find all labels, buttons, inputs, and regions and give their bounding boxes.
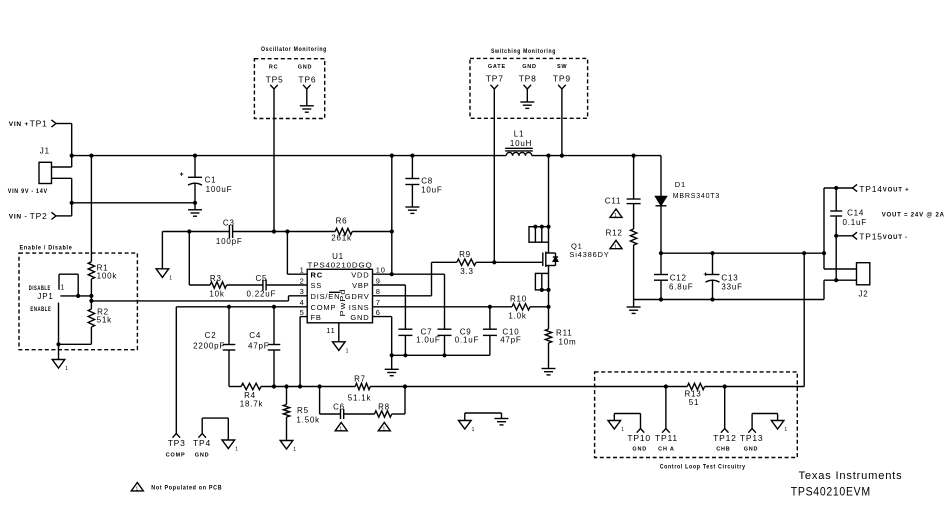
svg-text:1.0k: 1.0k bbox=[508, 312, 527, 321]
junction C4 / COMP row bbox=[272, 305, 276, 309]
junction VOUT / feedback drop bbox=[802, 251, 806, 255]
resistor R8 (not populated) bbox=[375, 403, 392, 418]
svg-text:261k: 261k bbox=[331, 234, 352, 243]
wire R12 to output gnd rail bbox=[633, 245, 635, 300]
svg-text:JP1: JP1 bbox=[37, 292, 53, 301]
svg-text:R10: R10 bbox=[510, 294, 527, 303]
capacitor C5 0.22uF bbox=[247, 274, 277, 299]
wire C6/R8 branch bbox=[320, 387, 405, 415]
svg-text:R8: R8 bbox=[378, 403, 390, 412]
svg-text:MBRS340T3: MBRS340T3 bbox=[673, 193, 720, 200]
svg-text:8: 8 bbox=[376, 287, 381, 296]
test point TP5 (RC) bbox=[266, 65, 284, 90]
junction top rail / TP1 bbox=[70, 154, 74, 158]
svg-text:1: 1 bbox=[235, 447, 239, 453]
diode D1 MBRS340T3 bbox=[656, 156, 721, 254]
svg-text:Not Populated on PCB: Not Populated on PCB bbox=[151, 485, 222, 492]
ground GND1 for TP4 bbox=[222, 440, 235, 449]
ground earth below TP8 bbox=[520, 101, 534, 103]
svg-text:R11: R11 bbox=[556, 329, 572, 338]
node FB row wire bbox=[229, 386, 804, 388]
ground tie bracket GND1 to earth bbox=[465, 413, 502, 421]
svg-text:10uF: 10uF bbox=[421, 186, 442, 195]
NP triangle under C6 bbox=[335, 422, 347, 430]
junction DIS/EN tap bbox=[89, 299, 93, 303]
svg-text:GND: GND bbox=[298, 65, 313, 71]
ground earth below R11 bbox=[542, 368, 556, 370]
svg-text:3: 3 bbox=[300, 287, 305, 296]
svg-text:R7: R7 bbox=[354, 375, 366, 384]
wire J2 pin1 bbox=[824, 268, 857, 270]
svg-text:TPS40210EVM: TPS40210EVM bbox=[791, 485, 871, 499]
svg-text:CH A: CH A bbox=[658, 447, 674, 453]
svg-text:GND: GND bbox=[195, 453, 210, 459]
wire J1 pin2 to VIN- rail bbox=[52, 178, 72, 216]
capacitor C13 33uF bbox=[703, 253, 742, 299]
svg-text:ENABLE: ENABLE bbox=[30, 307, 51, 313]
svg-text:R12: R12 bbox=[606, 229, 623, 238]
junction RC row / pin1 branch bbox=[285, 229, 289, 233]
junction R13 row / TP12 bbox=[723, 384, 727, 388]
svg-text:C12: C12 bbox=[670, 274, 687, 283]
svg-text:VOUT = 24V @ 2A: VOUT = 24V @ 2A bbox=[882, 213, 945, 219]
junction VDD / R6 vertical bbox=[390, 272, 394, 276]
junction VOUT / D1 bbox=[659, 251, 663, 255]
svg-text:6: 6 bbox=[376, 308, 381, 317]
pin 11 PwPd ground GND1 bbox=[333, 323, 350, 355]
inductor L1 10uH bbox=[505, 130, 533, 156]
resistor R10 1.0k bbox=[508, 294, 530, 320]
svg-text:Switching Monitoring: Switching Monitoring bbox=[491, 49, 556, 55]
svg-text:TP9: TP9 bbox=[553, 74, 571, 84]
svg-text:+: + bbox=[180, 172, 185, 179]
svg-text:GATE: GATE bbox=[488, 64, 506, 70]
wire R6 right to top rail and VDD bbox=[391, 156, 393, 275]
wire C5 to pin 2 SS bbox=[266, 284, 307, 286]
wire C11 to R12 bbox=[633, 204, 635, 229]
wire COMP row bbox=[176, 306, 307, 308]
junction ISNS / C10 bbox=[488, 305, 492, 309]
svg-text:1: 1 bbox=[621, 427, 625, 433]
junction TP15 / C14 bbox=[834, 234, 838, 238]
ground earth tie right bbox=[495, 418, 509, 420]
svg-text:0.22uF: 0.22uF bbox=[247, 290, 277, 299]
svg-text:5: 5 bbox=[300, 308, 305, 317]
resistor R1 100k bbox=[88, 262, 117, 281]
Control Loop Test Circuitry dashed box bbox=[595, 372, 798, 471]
svg-text:1: 1 bbox=[614, 244, 618, 250]
wire GND pin6 to ground rail bbox=[373, 317, 392, 356]
junction drain pins b bbox=[540, 225, 544, 229]
ground earth below gnd rail bbox=[385, 355, 399, 375]
svg-text:RC: RC bbox=[311, 270, 323, 279]
wire R9 to Q1 gate bbox=[476, 261, 543, 263]
wire TP9 to SW rail bbox=[561, 89, 563, 156]
ground earth below TP6 bbox=[300, 105, 314, 107]
svg-text:VOUT +: VOUT + bbox=[883, 188, 910, 194]
test point TP1 (VIN +) bbox=[9, 119, 56, 129]
svg-text:RC: RC bbox=[269, 65, 279, 71]
svg-text:10k: 10k bbox=[209, 290, 224, 299]
svg-text:C1: C1 bbox=[205, 176, 217, 185]
ground earth below out-gnd rail bbox=[627, 300, 641, 314]
svg-text:SW: SW bbox=[557, 64, 567, 70]
svg-text:1: 1 bbox=[383, 426, 387, 432]
wire R2 bottom bbox=[59, 327, 92, 344]
svg-text:1.50k: 1.50k bbox=[296, 416, 320, 425]
svg-text:Enable / Disable: Enable / Disable bbox=[20, 245, 73, 252]
node VIN- rail bbox=[72, 202, 195, 204]
svg-text:TP1: TP1 bbox=[30, 119, 48, 129]
svg-text:47pF: 47pF bbox=[248, 342, 269, 351]
svg-text:TP3: TP3 bbox=[168, 438, 186, 448]
test point TP13 (GND) bbox=[740, 414, 778, 453]
Enable / Disable dashed box bbox=[19, 245, 137, 350]
junction VDD vertical / top rail bbox=[390, 154, 394, 158]
svg-text:4: 4 bbox=[300, 298, 305, 307]
resistor R5 1.50k bbox=[283, 387, 320, 441]
junction Q1 drain / top rail bbox=[546, 154, 550, 158]
svg-text:+: + bbox=[703, 272, 708, 279]
svg-text:TP14: TP14 bbox=[859, 184, 883, 194]
svg-text:1: 1 bbox=[346, 348, 350, 354]
svg-text:GND: GND bbox=[350, 313, 369, 322]
svg-text:2: 2 bbox=[300, 276, 305, 285]
svg-text:2200pF: 2200pF bbox=[193, 342, 225, 351]
svg-text:11: 11 bbox=[326, 326, 335, 335]
capacitor C9 0.1uF bbox=[438, 328, 480, 356]
svg-text:R3: R3 bbox=[210, 274, 222, 283]
svg-text:COMP: COMP bbox=[166, 453, 186, 459]
resistor R9 3.3 bbox=[457, 250, 476, 276]
svg-text:TP10: TP10 bbox=[627, 433, 651, 443]
junction FB row / R5 bbox=[284, 384, 288, 388]
svg-text:1.0uF: 1.0uF bbox=[416, 336, 440, 345]
resistor R13 51 bbox=[684, 383, 704, 407]
svg-text:C6: C6 bbox=[333, 403, 345, 412]
ground GND1 tie left bbox=[459, 421, 472, 430]
svg-text:COMP: COMP bbox=[311, 303, 337, 312]
svg-text:J1: J1 bbox=[40, 147, 50, 156]
svg-text:GDRV: GDRV bbox=[345, 292, 370, 301]
svg-text:TP13: TP13 bbox=[740, 433, 764, 443]
capacitor C11 (not populated) bbox=[605, 197, 641, 206]
junction source pins a bbox=[540, 288, 544, 292]
junction out-gnd / C13 bbox=[710, 297, 714, 301]
junction gnd rail left bbox=[390, 353, 394, 357]
svg-text:GND: GND bbox=[522, 64, 537, 70]
connector J2 bbox=[857, 263, 870, 299]
node VIN top rail bbox=[72, 155, 661, 157]
svg-text:TP5: TP5 bbox=[266, 75, 284, 85]
svg-text:C3: C3 bbox=[223, 219, 235, 228]
svg-text:Si4386DY: Si4386DY bbox=[569, 250, 609, 259]
wire TP7 to gate row bbox=[493, 89, 495, 262]
wire TP1 to top rail bbox=[56, 124, 72, 168]
wire node to DIS/EN pin3 bbox=[91, 296, 307, 301]
junction gate row / TP7 bbox=[492, 260, 496, 264]
svg-text:CHB: CHB bbox=[716, 447, 730, 453]
svg-text:R5: R5 bbox=[297, 406, 309, 415]
junction C2 / COMP row bbox=[227, 305, 231, 309]
junction RC row / TP5 bbox=[272, 229, 276, 233]
junction gnd rail / C7 bbox=[403, 353, 407, 357]
junction C1 / VIN- rail bbox=[193, 201, 197, 205]
svg-text:VIN +: VIN + bbox=[9, 121, 29, 128]
wire Q1 source down bbox=[548, 290, 550, 329]
svg-text:TP12: TP12 bbox=[713, 433, 737, 443]
wire TP2 lead bbox=[56, 215, 72, 217]
test point TP2 (VIN -) bbox=[9, 211, 56, 221]
capacitor C3 100pF bbox=[216, 219, 243, 247]
test point TP15 (VOUT -) bbox=[853, 232, 908, 242]
svg-text:VDD: VDD bbox=[351, 270, 369, 279]
wire VIN rail to R1 bbox=[90, 156, 92, 262]
capacitor C2 2200pF bbox=[193, 307, 235, 387]
Q1 drain pin-group box bbox=[529, 227, 549, 243]
ground GND1 below R5 bbox=[280, 441, 293, 450]
svg-text:10: 10 bbox=[376, 266, 386, 275]
resistor R2 51k bbox=[88, 301, 112, 327]
junction FB row / C4 bbox=[272, 384, 276, 388]
svg-text:TP4: TP4 bbox=[193, 438, 211, 448]
wire R1 to node bbox=[90, 279, 92, 296]
wire feedback drop to R13 row bbox=[803, 253, 805, 386]
capacitor C12 6.8uF bbox=[654, 253, 693, 299]
svg-text:TP8: TP8 bbox=[519, 74, 537, 84]
svg-text:100uF: 100uF bbox=[206, 185, 233, 194]
svg-text:1: 1 bbox=[784, 427, 788, 433]
connector J1 bbox=[8, 147, 52, 196]
junction FB row / FB pin bbox=[298, 384, 302, 388]
ground GND1 below JP1 bbox=[52, 344, 69, 372]
capacitor C1 bbox=[180, 156, 233, 203]
junction R10 / Q1 source bbox=[546, 305, 550, 309]
svg-text:ISNS: ISNS bbox=[349, 303, 370, 312]
svg-text:C4: C4 bbox=[249, 331, 261, 340]
junction VOUT / TP14 branch bbox=[822, 251, 826, 255]
svg-text:VIN 9V - 14V: VIN 9V - 14V bbox=[8, 188, 48, 195]
svg-text:1: 1 bbox=[300, 266, 305, 275]
svg-text:10m: 10m bbox=[559, 338, 577, 347]
resistor R7 51.1k bbox=[348, 375, 372, 403]
wire C3 left node down to R3 bbox=[189, 232, 210, 286]
svg-text:18.7k: 18.7k bbox=[240, 400, 264, 409]
junction J2 pin2 / C14 bbox=[834, 278, 838, 282]
junction drain pins c bbox=[546, 225, 550, 229]
svg-text:1: 1 bbox=[472, 427, 476, 433]
junction TP14 row / C14 bbox=[834, 186, 838, 190]
wire R3 to C5 bbox=[227, 284, 263, 286]
svg-text:Oscillator Monitoring: Oscillator Monitoring bbox=[261, 47, 327, 53]
capacitor C4 47pF bbox=[248, 307, 280, 387]
wire TP15 row bbox=[836, 235, 852, 237]
svg-text:9: 9 bbox=[376, 276, 381, 285]
wire R11 to ground bbox=[548, 343, 550, 369]
svg-text:C2: C2 bbox=[205, 331, 217, 340]
svg-text:C14: C14 bbox=[847, 209, 864, 218]
svg-text:1: 1 bbox=[614, 213, 618, 219]
NP triangle under C11 bbox=[610, 209, 622, 217]
svg-text:D1: D1 bbox=[675, 180, 686, 189]
node VOUT row bbox=[661, 252, 824, 254]
svg-text:1: 1 bbox=[61, 285, 66, 292]
svg-text:0.1uF: 0.1uF bbox=[455, 336, 479, 345]
svg-text:1: 1 bbox=[136, 487, 140, 493]
wire TP8 to ground bbox=[526, 89, 528, 102]
test point TP7 (GATE) bbox=[486, 64, 506, 89]
test point TP3 (COMP) bbox=[166, 307, 186, 459]
NP triangle under R12 bbox=[610, 240, 622, 248]
svg-text:VIN -: VIN - bbox=[9, 214, 28, 221]
svg-text:6.8uF: 6.8uF bbox=[669, 283, 693, 292]
svg-text:FB: FB bbox=[311, 313, 322, 322]
svg-text:C13: C13 bbox=[721, 274, 738, 283]
node analog ground rail bbox=[392, 354, 490, 356]
ground GND1 for TP13 bbox=[771, 421, 784, 430]
svg-text:J2: J2 bbox=[858, 290, 868, 299]
ground GND1 for TP10 bbox=[608, 421, 621, 430]
wire VDD pin10 to C9 bbox=[373, 274, 445, 329]
junction JP1 pin2 / R2 bbox=[56, 342, 60, 346]
junction source pins b bbox=[546, 288, 550, 292]
Oscillator Monitoring dashed box bbox=[254, 47, 327, 119]
test point TP8 (GND) bbox=[519, 64, 537, 89]
junction C11 branch / top rail bbox=[632, 154, 636, 158]
junction FB row / C6 branch bbox=[318, 384, 322, 388]
wire TP5 to RC node bbox=[273, 89, 275, 232]
junction drain pins a bbox=[533, 225, 537, 229]
svg-text:TP6: TP6 bbox=[298, 75, 316, 85]
svg-text:DISABLE: DISABLE bbox=[29, 286, 51, 292]
resistor R12 (not populated) bbox=[606, 229, 637, 246]
svg-text:TP7: TP7 bbox=[486, 74, 504, 84]
svg-text:100pF: 100pF bbox=[216, 237, 243, 246]
wire SW rail to Q1 drain bbox=[548, 156, 550, 227]
node output ground rail bbox=[634, 299, 824, 301]
svg-text:GND: GND bbox=[632, 447, 647, 453]
svg-text:TPS40210DGQ: TPS40210DGQ bbox=[308, 261, 373, 270]
svg-text:100k: 100k bbox=[97, 272, 118, 281]
wire RC node to pin 1 bbox=[287, 232, 307, 275]
Switching Monitoring dashed box bbox=[470, 49, 588, 118]
svg-text:C8: C8 bbox=[421, 177, 433, 186]
junction C1 top rail bbox=[193, 154, 197, 158]
svg-text:C11: C11 bbox=[605, 197, 621, 206]
wire rail to C11 bbox=[633, 156, 635, 199]
junction RC row / R3 branch bbox=[187, 229, 191, 233]
test point TP12 (CH B) bbox=[713, 387, 737, 453]
junction JP1 pin1 bbox=[76, 294, 80, 298]
svg-text:TP11: TP11 bbox=[655, 433, 678, 443]
wire TP6 to ground bbox=[306, 89, 308, 106]
ground GND1 left of C3 bbox=[156, 232, 173, 282]
junction out-gnd / C12 bbox=[659, 297, 663, 301]
resistor R3 10k bbox=[209, 274, 226, 299]
svg-text:DIS/EN: DIS/EN bbox=[311, 292, 341, 301]
resistor R4 18.7k bbox=[240, 383, 264, 408]
svg-text:51k: 51k bbox=[97, 316, 112, 325]
test point TP14 (VOUT +) bbox=[853, 184, 910, 194]
wire ISNS pin7 row bbox=[373, 306, 549, 308]
svg-text:51: 51 bbox=[689, 398, 700, 407]
test point TP6 (GND) bbox=[298, 65, 317, 90]
U1 right pin names bbox=[345, 270, 370, 321]
resistor R6 261k bbox=[331, 217, 352, 243]
test point TP9 (SW) bbox=[553, 64, 571, 89]
svg-text:1: 1 bbox=[65, 366, 69, 372]
svg-text:SS: SS bbox=[311, 281, 323, 290]
svg-text:1: 1 bbox=[293, 447, 297, 453]
transistor Q1 Si4386DY bbox=[543, 242, 610, 274]
wire J2 pin2 to output ground bbox=[824, 280, 857, 299]
jumper JP1 bbox=[29, 274, 92, 344]
junction C8 / top rail bbox=[410, 154, 414, 158]
wire FB pin5 bbox=[300, 317, 307, 387]
svg-text:R9: R9 bbox=[459, 250, 471, 259]
svg-text:Control Loop Test Circuitry: Control Loop Test Circuitry bbox=[660, 465, 746, 471]
node RC row wire bbox=[162, 231, 391, 233]
junction gnd rail / C9 bbox=[442, 353, 446, 357]
junction R7 right / C6 branch bbox=[403, 384, 407, 388]
junction VIN- / J1 bbox=[70, 201, 74, 205]
svg-text:1: 1 bbox=[339, 426, 343, 432]
svg-text:GND: GND bbox=[744, 447, 759, 453]
ground earth below C1 bbox=[188, 203, 202, 216]
NP legend triangle bbox=[131, 483, 143, 491]
svg-text:0.1uF: 0.1uF bbox=[843, 218, 867, 227]
svg-text:VBP: VBP bbox=[352, 281, 369, 290]
wire J1 pin1 bbox=[52, 166, 72, 168]
junction R13 row / TP11 bbox=[664, 384, 668, 388]
capacitor C7 1.0uF bbox=[398, 328, 440, 356]
op-amp U1 TPS40210DGQ bbox=[307, 252, 372, 323]
junction R1 branch / top rail bbox=[89, 154, 93, 158]
svg-text:33uF: 33uF bbox=[721, 283, 742, 292]
wire C14 down to J2 pin2 row bbox=[835, 236, 837, 280]
svg-text:TP2: TP2 bbox=[30, 211, 48, 221]
svg-text:51.1k: 51.1k bbox=[348, 394, 372, 403]
svg-text:Texas Instruments: Texas Instruments bbox=[799, 470, 903, 482]
wire GDRV pin8 up to R9 bbox=[373, 262, 457, 296]
svg-text:R6: R6 bbox=[336, 217, 348, 226]
svg-text:TP15: TP15 bbox=[859, 232, 883, 242]
resistor R11 10m bbox=[545, 329, 576, 347]
junction R6 / VDD vertical bbox=[390, 229, 394, 233]
capacitor C8 10uF bbox=[405, 156, 442, 207]
capacitor C6 (not populated) bbox=[333, 403, 345, 420]
svg-text:3.3: 3.3 bbox=[460, 267, 474, 276]
test point TP4 (GND) bbox=[193, 418, 228, 458]
wire VOUT to TP14 bbox=[824, 188, 853, 269]
junction R1/R2 node bbox=[89, 294, 93, 298]
svg-text:47pF: 47pF bbox=[500, 336, 521, 345]
junction TP9 / top rail bbox=[560, 154, 564, 158]
svg-text:1: 1 bbox=[169, 275, 173, 281]
svg-text:7: 7 bbox=[376, 298, 381, 307]
ground earth below C8 bbox=[405, 206, 419, 208]
capacitor C14 0.1uF bbox=[830, 188, 867, 236]
test point TP11 (CH A) bbox=[655, 387, 678, 453]
capacitor C10 47pF bbox=[483, 307, 522, 356]
svg-text:PwPd: PwPd bbox=[340, 289, 347, 317]
test point TP10 (GND) bbox=[614, 414, 651, 453]
NP triangle under R8 bbox=[378, 422, 390, 430]
svg-text:L1: L1 bbox=[514, 130, 525, 139]
svg-text:C5: C5 bbox=[255, 274, 267, 283]
svg-text:VOUT -: VOUT - bbox=[883, 235, 908, 241]
Q1 source pin-group box bbox=[535, 273, 548, 290]
